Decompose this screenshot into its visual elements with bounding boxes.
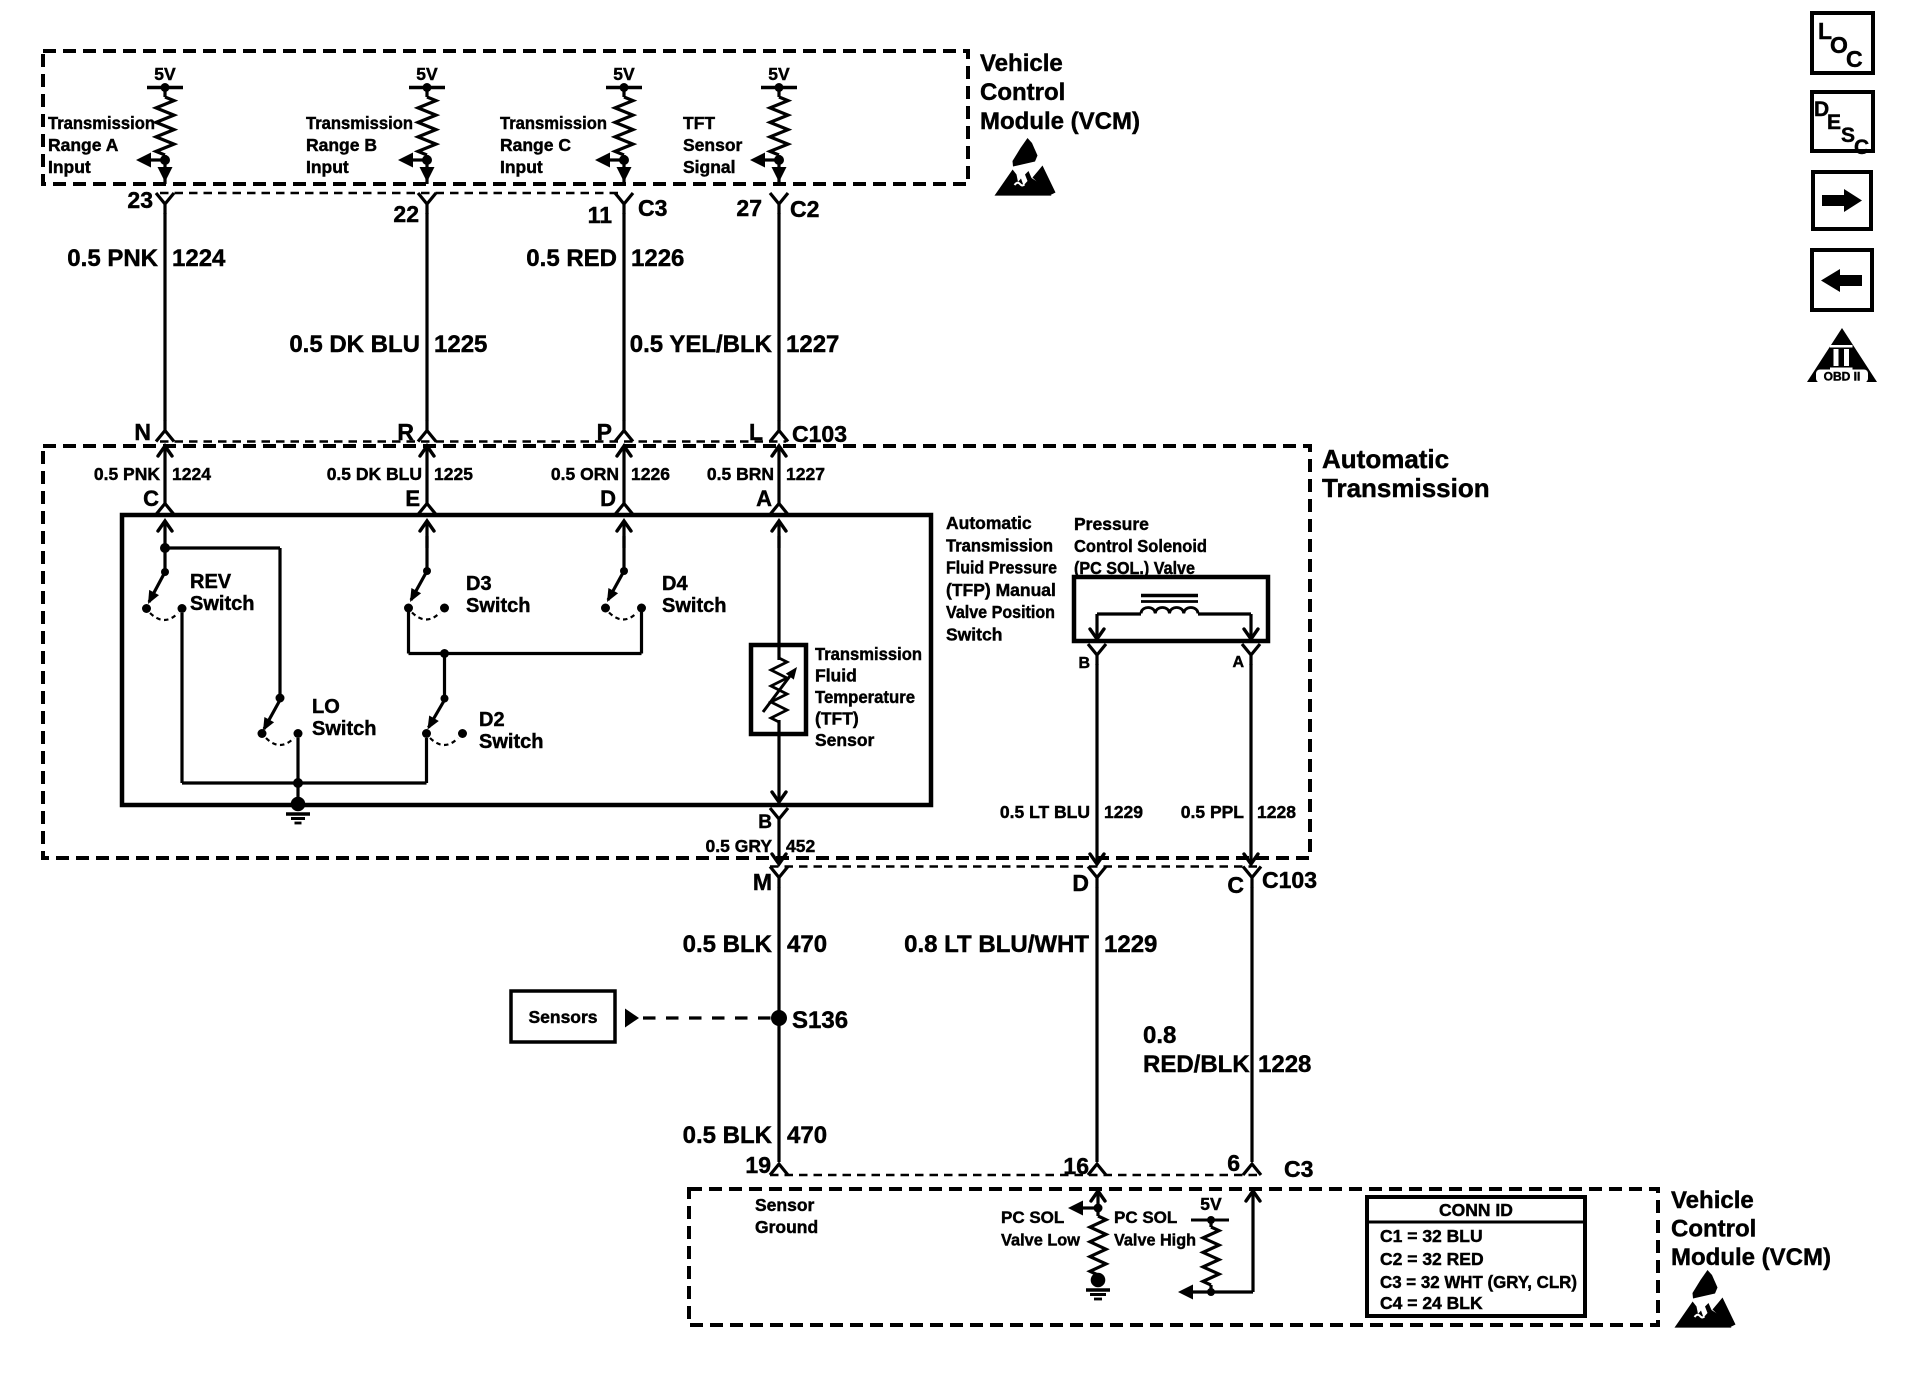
svg-text:A: A [1232,654,1244,671]
svg-text:Transmission: Transmission [48,113,155,133]
svg-text:1227: 1227 [786,331,839,358]
svg-text:S136: S136 [792,1007,848,1034]
arrow from Sensors to S136 [625,1009,639,1028]
tap arrow [1193,1290,1253,1293]
svg-text:6: 6 [1227,1150,1240,1176]
svg-text:1227: 1227 [786,464,825,484]
pin 22 connector [418,193,436,214]
wire 1226 RED [622,213,625,421]
svg-text:Switch: Switch [312,718,376,740]
svg-text:1226: 1226 [631,245,684,272]
svg-text:Switch: Switch [946,625,1002,645]
svg-text:L: L [749,419,763,445]
svg-text:23: 23 [127,187,153,213]
pin 27 connector, C2 [770,193,788,214]
svg-text:C2 = 32 RED: C2 = 32 RED [1380,1249,1484,1269]
svg-text:D: D [600,486,616,511]
svg-text:RED/BLK: RED/BLK [1143,1051,1250,1078]
pin R C103 [418,421,436,442]
svg-text:Input: Input [306,157,349,177]
svg-text:B: B [1078,655,1090,672]
resistor PC SOL low [1090,1216,1106,1275]
ground (TFP switch common) [291,797,306,812]
ESD warning icon bottom [1675,1270,1736,1328]
connector into TFP switch box pin E [418,504,436,515]
svg-text:0.5 RED: 0.5 RED [526,245,617,272]
svg-text:M: M [753,869,772,895]
svg-text:Valve High: Valve High [1114,1231,1196,1250]
resistor PC SOL high [1203,1227,1219,1285]
PC SOL Valve Low circuit [1091,1191,1105,1201]
svg-text:1225: 1225 [434,464,473,484]
svg-text:Sensor: Sensor [815,730,875,750]
TFP manual valve position switch box [122,515,931,805]
wire 1227 YEL/BLK [777,213,780,421]
svg-text:Switch: Switch [466,595,530,617]
svg-text:470: 470 [787,1122,827,1149]
svg-text:R: R [397,419,414,445]
wire 1224 PNK [163,213,166,421]
svg-text:OBD II: OBD II [1824,370,1861,384]
connector into TFP switch box pin C [156,504,174,515]
svg-text:1229: 1229 [1104,931,1157,958]
svg-text:Sensor: Sensor [683,135,743,155]
PC SOL valve box [1074,577,1268,641]
LOC icon [1812,13,1873,73]
pin D [1088,867,1106,888]
pin 11 connector, C3 [615,193,633,214]
pin L C103 [770,421,788,442]
wire 1225 into AT, pin E [420,446,434,456]
svg-text:5V: 5V [613,64,635,84]
pin A of PC SOL valve [1242,644,1260,665]
pin N C103 [156,421,174,442]
ground PC SOL low [1091,1273,1106,1288]
svg-text:0.5 BRN: 0.5 BRN [707,464,774,484]
pin B of PC SOL valve [1088,644,1106,665]
svg-text:1228: 1228 [1257,802,1296,822]
pin 6, C3 [1243,1164,1261,1175]
svg-text:Pressure: Pressure [1074,514,1149,534]
svg-text:0.8 LT BLU/WHT: 0.8 LT BLU/WHT [904,931,1089,958]
svg-text:Fluid Pressure: Fluid Pressure [946,558,1057,578]
svg-text:1229: 1229 [1104,802,1143,822]
svg-text:D: D [1072,870,1089,896]
svg-text:Transmission: Transmission [946,535,1053,555]
svg-text:P: P [597,419,612,445]
wire 1225 DK BLU [425,213,428,421]
wire 1226 into AT, pin D [617,446,631,456]
OBD II icon [1807,328,1877,382]
svg-text:Range A: Range A [48,135,119,155]
Sensors box [511,991,615,1042]
connector into TFP switch box pin D [615,504,633,515]
svg-text:Transmission: Transmission [500,113,607,133]
Automatic Transmission box [43,446,1310,858]
svg-text:C: C [1227,872,1244,898]
svg-text:S: S [1841,124,1855,147]
wire 1228 RED/BLK [1250,887,1253,1162]
svg-text:TFT: TFT [683,113,715,133]
svg-text:0.5 PPL: 0.5 PPL [1181,802,1245,822]
svg-text:Automatic: Automatic [1322,444,1449,474]
svg-text:Fluid: Fluid [815,666,857,686]
svg-text:N: N [134,419,151,445]
svg-text:1226: 1226 [631,464,670,484]
connector line at bottom VCM [770,1174,1258,1177]
svg-text:Signal: Signal [683,157,736,177]
svg-text:LO: LO [312,696,340,718]
Vehicle Control Module (VCM) bottom box [689,1189,1658,1325]
svg-text:0.5 PNK: 0.5 PNK [94,464,160,484]
svg-text:C103: C103 [1262,867,1317,893]
svg-text:C: C [143,486,159,511]
svg-text:Control: Control [1671,1216,1756,1243]
forward arrow icon [1813,172,1871,229]
svg-text:16: 16 [1063,1153,1089,1179]
svg-text:C: C [1854,136,1869,159]
svg-text:C3: C3 [638,195,667,221]
svg-text:D4: D4 [662,573,688,595]
svg-text:Input: Input [48,157,91,177]
pin P C103 [615,421,633,442]
svg-text:1224: 1224 [172,464,211,484]
svg-text:Input: Input [500,157,543,177]
pin 19 [770,1164,788,1175]
svg-text:Sensors: Sensors [528,1007,597,1027]
svg-text:Transmission: Transmission [306,113,413,133]
output tap arrow A [151,158,165,161]
svg-text:C2: C2 [790,196,819,222]
svg-text:Switch: Switch [479,731,543,753]
svg-text:452: 452 [786,836,815,856]
wire D3 contact to D4 contact [407,612,410,654]
wire 1229 LT BLU [1095,664,1098,864]
wire from LO contact down to ground [296,738,299,805]
svg-text:Switch: Switch [190,593,254,615]
wire 1224 into AT, pin C [158,446,172,456]
svg-text:(TFP) Manual: (TFP) Manual [946,580,1056,600]
D4 switch [622,536,625,571]
svg-text:0.5 PNK: 0.5 PNK [67,245,158,272]
wire exits VCM down, arrowhead at border [617,167,632,182]
svg-text:D3: D3 [466,573,492,595]
LO switch [276,694,285,703]
resistor pull-up TFT [770,97,788,155]
svg-text:0.5 DK BLU: 0.5 DK BLU [289,331,420,358]
svg-text:PC SOL: PC SOL [1001,1208,1064,1227]
svg-text:Vehicle: Vehicle [1671,1187,1754,1214]
svg-text:Transmission: Transmission [815,644,922,664]
svg-text:Transmission: Transmission [1322,473,1490,503]
pin 16 [1088,1164,1106,1175]
svg-text:Control Solenoid: Control Solenoid [1074,536,1207,556]
svg-text:22: 22 [393,201,419,227]
TFT sensor wire through box [777,536,780,660]
svg-text:0.5 ORN: 0.5 ORN [551,464,619,484]
svg-text:1225: 1225 [434,331,487,358]
svg-text:C103: C103 [792,421,847,447]
svg-text:19: 19 [745,1152,771,1178]
svg-text:0.5 GRY: 0.5 GRY [706,836,773,856]
wire from REV NC contact down [180,613,183,783]
svg-text:Valve Low: Valve Low [1001,1231,1081,1250]
svg-text:Module (VCM): Module (VCM) [980,108,1140,135]
pin M [770,867,788,888]
D3 switch [425,536,428,571]
svg-text:Switch: Switch [662,595,726,617]
splice S136 [771,1010,787,1026]
svg-text:(TFT): (TFT) [815,709,859,729]
output tap arrow B [413,158,427,161]
svg-text:0.5 BLK: 0.5 BLK [683,1122,773,1149]
svg-text:470: 470 [787,931,827,958]
svg-text:0.5 LT BLU: 0.5 LT BLU [1000,802,1090,822]
svg-text:11: 11 [588,202,613,228]
svg-text:5V: 5V [1200,1194,1222,1214]
back arrow icon [1812,250,1872,310]
pin B of TFP switch [770,808,788,829]
D2 switch [443,654,446,699]
wire up to pin 6 [1251,1191,1254,1292]
output tap arrow TFT [765,158,779,161]
svg-text:5V: 5V [768,64,790,84]
svg-text:5V: 5V [154,64,176,84]
wire exits VCM down, arrowhead at border [420,167,435,182]
svg-text:C: C [1846,46,1863,72]
output tap arrow C [610,158,624,161]
svg-text:1228: 1228 [1258,1051,1311,1078]
svg-text:REV: REV [190,571,232,593]
resistor pull-up A [156,97,174,155]
svg-text:Control: Control [980,79,1065,106]
wire exits VCM down, arrowhead at border [772,167,787,182]
svg-text:Temperature: Temperature [815,687,915,707]
connector C103 line (thin dashed) [160,440,786,443]
svg-text:C3 = 32 WHT (GRY, CLR): C3 = 32 WHT (GRY, CLR) [1380,1272,1577,1292]
svg-text:0.8: 0.8 [1143,1022,1176,1049]
svg-text:0.5 BLK: 0.5 BLK [683,931,773,958]
svg-text:0.5 YEL/BLK: 0.5 YEL/BLK [630,331,773,358]
svg-text:5V: 5V [416,64,438,84]
REV switch [160,543,170,553]
svg-text:D2: D2 [479,709,505,731]
svg-text:Sensor: Sensor [755,1195,815,1215]
wire 1228 PPL [1249,664,1252,864]
svg-text:C3: C3 [1284,1156,1313,1182]
svg-text:Vehicle: Vehicle [980,50,1063,77]
connector into TFP switch box pin A [770,504,788,515]
svg-text:CONN ID: CONN ID [1439,1200,1513,1220]
connector line C3/C2 at VCM (thin dashed) [160,192,618,195]
svg-text:C1 = 32 BLU: C1 = 32 BLU [1380,1226,1483,1246]
svg-text:A: A [756,486,772,511]
pin 23 connector [156,193,174,214]
wire exits VCM down, arrowhead at border [158,167,173,182]
svg-text:Module (VCM): Module (VCM) [1671,1244,1831,1271]
svg-text:C4 = 24 BLK: C4 = 24 BLK [1380,1293,1483,1313]
svg-text:1224: 1224 [172,245,226,272]
wire 1229 LT BLU/WHT [1095,887,1098,1162]
connector C103 bottom line [770,865,1258,868]
resistor pull-up B [418,97,436,155]
solenoid coil [1141,594,1198,597]
svg-text:Range B: Range B [306,135,377,155]
svg-text:Automatic: Automatic [946,513,1032,533]
CONN ID table [1367,1197,1585,1316]
svg-text:Range C: Range C [500,135,571,155]
svg-text:Ground: Ground [755,1217,818,1237]
DESC icon [1812,92,1873,151]
pin C [1243,867,1261,888]
svg-text:B: B [758,812,772,833]
TFT sensor (thermistor) [751,645,806,734]
resistor pull-up C [615,97,633,155]
common bus wire [182,781,427,784]
wire 470 BLK upper [777,887,780,1162]
svg-text:Valve Position: Valve Position [946,602,1055,622]
ESD warning icon top [995,138,1056,196]
wire 1227 into AT, pin A [772,446,786,456]
svg-text:E: E [405,486,420,511]
svg-text:PC SOL: PC SOL [1114,1208,1177,1227]
svg-text:27: 27 [736,195,762,221]
Vehicle Control Module (VCM) top box [43,51,968,184]
svg-text:0.5 DK BLU: 0.5 DK BLU [327,464,422,484]
svg-text:E: E [1827,111,1841,134]
